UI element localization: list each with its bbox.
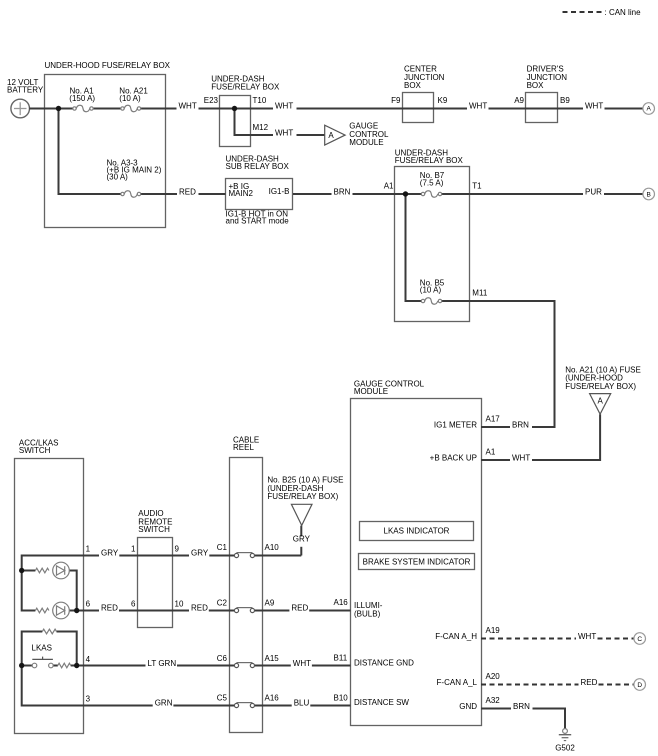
- svg-text:REEL: REEL: [233, 443, 254, 452]
- svg-text:(7.5 A): (7.5 A): [420, 178, 444, 187]
- svg-text:A1: A1: [486, 448, 496, 457]
- wire LKAS feedback resistor loop: [22, 632, 43, 666]
- svg-text:F-CAN A_H: F-CAN A_H: [435, 632, 477, 641]
- resistor LKAS feedback: [42, 629, 56, 634]
- svg-text:(BULB): (BULB): [354, 610, 381, 619]
- svg-text:BRAKE SYSTEM INDICATOR: BRAKE SYSTEM INDICATOR: [363, 557, 471, 566]
- wire RED to module A16 ILLUMI: [309, 610, 350, 612]
- wire F-CAN A_L dashed to RED: [481, 684, 579, 686]
- CAN line legend: [563, 8, 642, 17]
- LED lamp 2: [53, 602, 70, 619]
- svg-text:BOX: BOX: [404, 81, 422, 90]
- ground G502: [555, 729, 575, 753]
- svg-text:GND: GND: [459, 702, 477, 711]
- svg-text:LKAS INDICATOR: LKAS INDICATOR: [384, 527, 450, 536]
- svg-text:GRY: GRY: [191, 549, 209, 558]
- svg-text:MODULE: MODULE: [349, 138, 383, 147]
- wire BLU to module B10 DISTANCE SW: [310, 705, 350, 707]
- wire GRY to audio remote switch pin 1-9: [119, 555, 189, 557]
- junction LKAS right node pin 4: [74, 663, 79, 668]
- svg-text:6: 6: [86, 600, 91, 609]
- wire fuse B5 via M11 down to IG1 METER: [442, 301, 555, 427]
- svg-text:10: 10: [175, 600, 184, 609]
- svg-text:4: 4: [86, 655, 91, 664]
- wire ACC pin 4 LT GRN row: [77, 665, 146, 667]
- svg-text:A32: A32: [486, 696, 501, 705]
- svg-text:A: A: [328, 131, 334, 140]
- wire F-CAN A_H dashed to WHT: [481, 638, 576, 640]
- under-dash fuse/relay box (main): [395, 149, 470, 322]
- wire K9 to driver's junction box A9-B9: [489, 108, 584, 110]
- svg-text:+B BACK UP: +B BACK UP: [430, 453, 477, 462]
- svg-text:D: D: [637, 682, 642, 689]
- svg-text:1: 1: [131, 545, 136, 554]
- svg-text:WHT: WHT: [179, 101, 197, 110]
- audio remote switch box: [138, 509, 173, 627]
- wire BRN to ground G502: [533, 709, 566, 729]
- wire series resistor to node pin 4: [71, 665, 77, 667]
- svg-text:LKAS: LKAS: [32, 644, 52, 653]
- svg-text:F9: F9: [391, 96, 401, 105]
- fuse No. B7 (7.5 A): [420, 171, 445, 197]
- terminal circle C: [634, 633, 646, 645]
- svg-text:GRY: GRY: [293, 534, 311, 543]
- svg-text:(30 A): (30 A): [107, 173, 129, 182]
- svg-text:A16: A16: [334, 598, 349, 607]
- wire LED branch upper: [22, 570, 36, 572]
- svg-text:(150 A): (150 A): [69, 94, 95, 103]
- svg-text:T1: T1: [472, 182, 482, 191]
- svg-text:WHT: WHT: [469, 101, 487, 110]
- svg-text:IG1 METER: IG1 METER: [434, 420, 477, 429]
- center junction box: [403, 64, 445, 122]
- svg-text:T10: T10: [253, 96, 267, 105]
- gauge control module box: [351, 379, 482, 725]
- svg-text:SWITCH: SWITCH: [138, 525, 170, 534]
- svg-text:FUSE/RELAY BOX): FUSE/RELAY BOX): [565, 382, 636, 391]
- svg-text:DISTANCE SW: DISTANCE SW: [354, 698, 409, 707]
- svg-text:1: 1: [86, 545, 91, 554]
- svg-text:E23: E23: [204, 96, 219, 105]
- svg-text:A9: A9: [265, 599, 275, 608]
- svg-text:FUSE/RELAY BOX: FUSE/RELAY BOX: [211, 83, 280, 92]
- battery 12 volt: [7, 78, 44, 118]
- wire BRN to fuse B7 via A1: [353, 193, 422, 195]
- svg-text:RED: RED: [291, 603, 308, 612]
- svg-text:6: 6: [131, 600, 136, 609]
- cable reel box: [230, 435, 263, 732]
- connector triangle A from fuse A21: [565, 365, 641, 414]
- wire dashed WHT to terminal C: [598, 638, 634, 640]
- cable reel connector contacts row C6: [234, 663, 254, 668]
- wire pin 10 RED to cable reel C2-A9: [209, 610, 235, 612]
- wire ACC pin 1 GRY row: [22, 556, 99, 571]
- svg-text:C1: C1: [217, 543, 228, 552]
- wire resistor to right node: [57, 632, 77, 666]
- wire fuse B7 to PUR via T1: [442, 193, 583, 195]
- svg-text:M11: M11: [472, 289, 488, 298]
- LKAS indicator: [360, 522, 474, 541]
- wire fuse A21 to WHT label: [141, 108, 177, 110]
- svg-text:(10 A): (10 A): [119, 94, 141, 103]
- wire fuse A1 to fuse A21: [93, 108, 121, 110]
- svg-text:FUSE/RELAY BOX: FUSE/RELAY BOX: [395, 156, 464, 165]
- svg-text:RED: RED: [179, 187, 196, 196]
- wire LED2 to node pin 6: [69, 610, 76, 612]
- wire fuse A3-3 to RED label: [141, 193, 177, 195]
- svg-text:K9: K9: [438, 96, 448, 105]
- svg-text:A9: A9: [514, 96, 524, 105]
- svg-text:M12: M12: [253, 123, 269, 132]
- svg-text:B: B: [647, 191, 651, 198]
- svg-text:A16: A16: [265, 694, 280, 703]
- junction battery bus: [56, 106, 61, 111]
- svg-text:BLU: BLU: [294, 698, 310, 707]
- junction LED branches right pin 6: [74, 608, 79, 613]
- terminal circle B: [643, 188, 655, 200]
- svg-text:PUR: PUR: [585, 187, 602, 196]
- svg-text:FUSE/RELAY BOX): FUSE/RELAY BOX): [267, 492, 338, 501]
- svg-text:IG1-B: IG1-B: [269, 187, 290, 196]
- wire GRY label to fuse B25 triangle apex: [300, 526, 302, 537]
- svg-text:B11: B11: [334, 654, 348, 663]
- svg-text:A15: A15: [265, 654, 280, 663]
- fuse No. A21 (10 A): [119, 86, 148, 111]
- wire dashed RED to terminal D: [599, 684, 634, 686]
- wire A10 riser to GRY label: [300, 547, 302, 556]
- svg-text:BATTERY: BATTERY: [7, 86, 44, 95]
- wire ACC pin 6 RED row: [77, 610, 99, 612]
- junction LED branches left: [19, 568, 24, 573]
- svg-text:G502: G502: [555, 744, 575, 753]
- svg-text:SWITCH: SWITCH: [19, 446, 51, 455]
- fuse No. B5 (10 A): [420, 279, 445, 305]
- resistor LKAS series: [58, 663, 71, 668]
- connector triangle A to gauge control module: [325, 122, 389, 148]
- fuse No. A3-3 (+B IG MAIN 2) (30 A): [107, 159, 162, 198]
- wire battery bus down to fuse A3-3 (RED row): [59, 109, 121, 195]
- wire left node down to LED branch lower: [22, 571, 36, 611]
- svg-text:A1: A1: [384, 182, 394, 191]
- svg-text:3: 3: [86, 695, 91, 704]
- wire PUR to terminal B: [604, 193, 643, 195]
- resistor LED branch 1: [35, 568, 49, 573]
- wire T10 to center junction box F9-K9: [297, 108, 468, 110]
- svg-text:B10: B10: [334, 694, 349, 703]
- terminal circle D: [634, 679, 646, 691]
- wire A1 pin to WHT: [481, 459, 510, 461]
- svg-text:A17: A17: [486, 415, 501, 424]
- wire node A1 down to fuse B5: [406, 194, 422, 301]
- svg-text:DISTANCE GND: DISTANCE GND: [354, 659, 414, 668]
- svg-text:B9: B9: [560, 96, 570, 105]
- svg-text:BRN: BRN: [513, 702, 530, 711]
- svg-text:GRY: GRY: [101, 549, 119, 558]
- svg-text:C2: C2: [217, 599, 228, 608]
- svg-text:F-CAN A_L: F-CAN A_L: [437, 678, 478, 687]
- wire RED to audio remote switch pin 6-10: [119, 610, 189, 612]
- svg-text:MODULE: MODULE: [354, 387, 388, 396]
- svg-text:A10: A10: [265, 543, 280, 552]
- svg-text:A20: A20: [486, 672, 501, 681]
- junction LKAS left node: [19, 663, 24, 668]
- wire pin 9 GRY to cable reel C1-A10: [209, 555, 234, 557]
- svg-text:A: A: [647, 105, 652, 112]
- svg-text:(10 A): (10 A): [420, 286, 442, 295]
- svg-text:C6: C6: [217, 654, 228, 663]
- wire ACC pin 3 GRN row: [22, 666, 153, 706]
- svg-text:SUB RELAY BOX: SUB RELAY BOX: [226, 162, 290, 171]
- wire LT GRN to cable reel C6-A15: [177, 665, 235, 667]
- wire LKAS switch left contact: [22, 665, 33, 667]
- svg-text:MAIN2: MAIN2: [229, 189, 254, 198]
- terminal circle A: [643, 103, 655, 115]
- wire IG1-B to BRN label: [293, 193, 332, 195]
- wire B9 to terminal A: [605, 108, 643, 110]
- driver's junction box: [526, 64, 568, 122]
- connector triangle fuse B25: [267, 476, 343, 544]
- svg-text:WHT: WHT: [578, 632, 596, 641]
- svg-text:A: A: [598, 397, 604, 406]
- wire LKAS switch to series resistor: [53, 665, 58, 667]
- junction A1 node fuse B7/B5: [403, 191, 408, 196]
- svg-text:RED: RED: [191, 603, 208, 612]
- cable reel connector contacts row C2: [234, 608, 254, 613]
- svg-text:WHT: WHT: [512, 453, 530, 462]
- brake system indicator: [359, 554, 475, 570]
- junction T10/M12 node: [232, 106, 237, 111]
- wire WHT to under-dash box through E23/T10: [199, 108, 274, 110]
- svg-text:RED: RED: [101, 603, 118, 612]
- under-dash sub relay box: [226, 155, 293, 226]
- svg-text:WHT: WHT: [275, 101, 293, 110]
- svg-text:and START mode: and START mode: [226, 216, 290, 225]
- cable reel connector contacts row C5: [234, 703, 254, 708]
- wire GRN to cable reel C5-A16: [173, 705, 234, 707]
- wire M12 branch to gauge control module: [235, 109, 274, 136]
- cable reel connector contacts row C1: [234, 553, 254, 558]
- svg-text:WHT: WHT: [293, 659, 311, 668]
- svg-text:UNDER-HOOD FUSE/RELAY BOX: UNDER-HOOD FUSE/RELAY BOX: [45, 61, 171, 70]
- wire GND pin A32 to BRN: [481, 708, 511, 710]
- wire WHT to module B11 DISTANCE GND: [312, 665, 351, 667]
- wire LED1 to right node: [69, 571, 76, 611]
- under-hood fuse/relay box: [45, 61, 171, 228]
- svg-text:RED: RED: [581, 678, 598, 687]
- svg-text:9: 9: [175, 545, 180, 554]
- ACC/LKAS switch box: [15, 438, 84, 733]
- wire M12 WHT to triangle A: [297, 134, 325, 136]
- fuse No. A1 (150 A): [69, 86, 95, 111]
- LED lamp 1: [53, 562, 70, 579]
- svg-text:A19: A19: [486, 626, 501, 635]
- wire battery to fuse A1 (WHT row): [29, 108, 73, 110]
- svg-text:BOX: BOX: [527, 81, 545, 90]
- svg-text:LT GRN: LT GRN: [148, 659, 177, 668]
- wire WHT to triangle A fuse A21: [532, 414, 600, 460]
- wire BRN to A17 pin: [481, 426, 510, 428]
- svg-text:C: C: [637, 636, 642, 643]
- svg-text:WHT: WHT: [585, 101, 603, 110]
- svg-text:BRN: BRN: [334, 187, 351, 196]
- svg-text:BRN: BRN: [512, 420, 529, 429]
- svg-text:: CAN line: : CAN line: [605, 8, 642, 17]
- LKAS momentary switch: [32, 644, 54, 668]
- under-dash fuse/relay box (top): [211, 75, 280, 147]
- svg-text:WHT: WHT: [275, 128, 293, 137]
- svg-text:GRN: GRN: [155, 698, 173, 707]
- resistor LED branch 2: [35, 608, 49, 613]
- svg-text:C5: C5: [217, 694, 228, 703]
- wire RED to sub relay box: [199, 193, 226, 195]
